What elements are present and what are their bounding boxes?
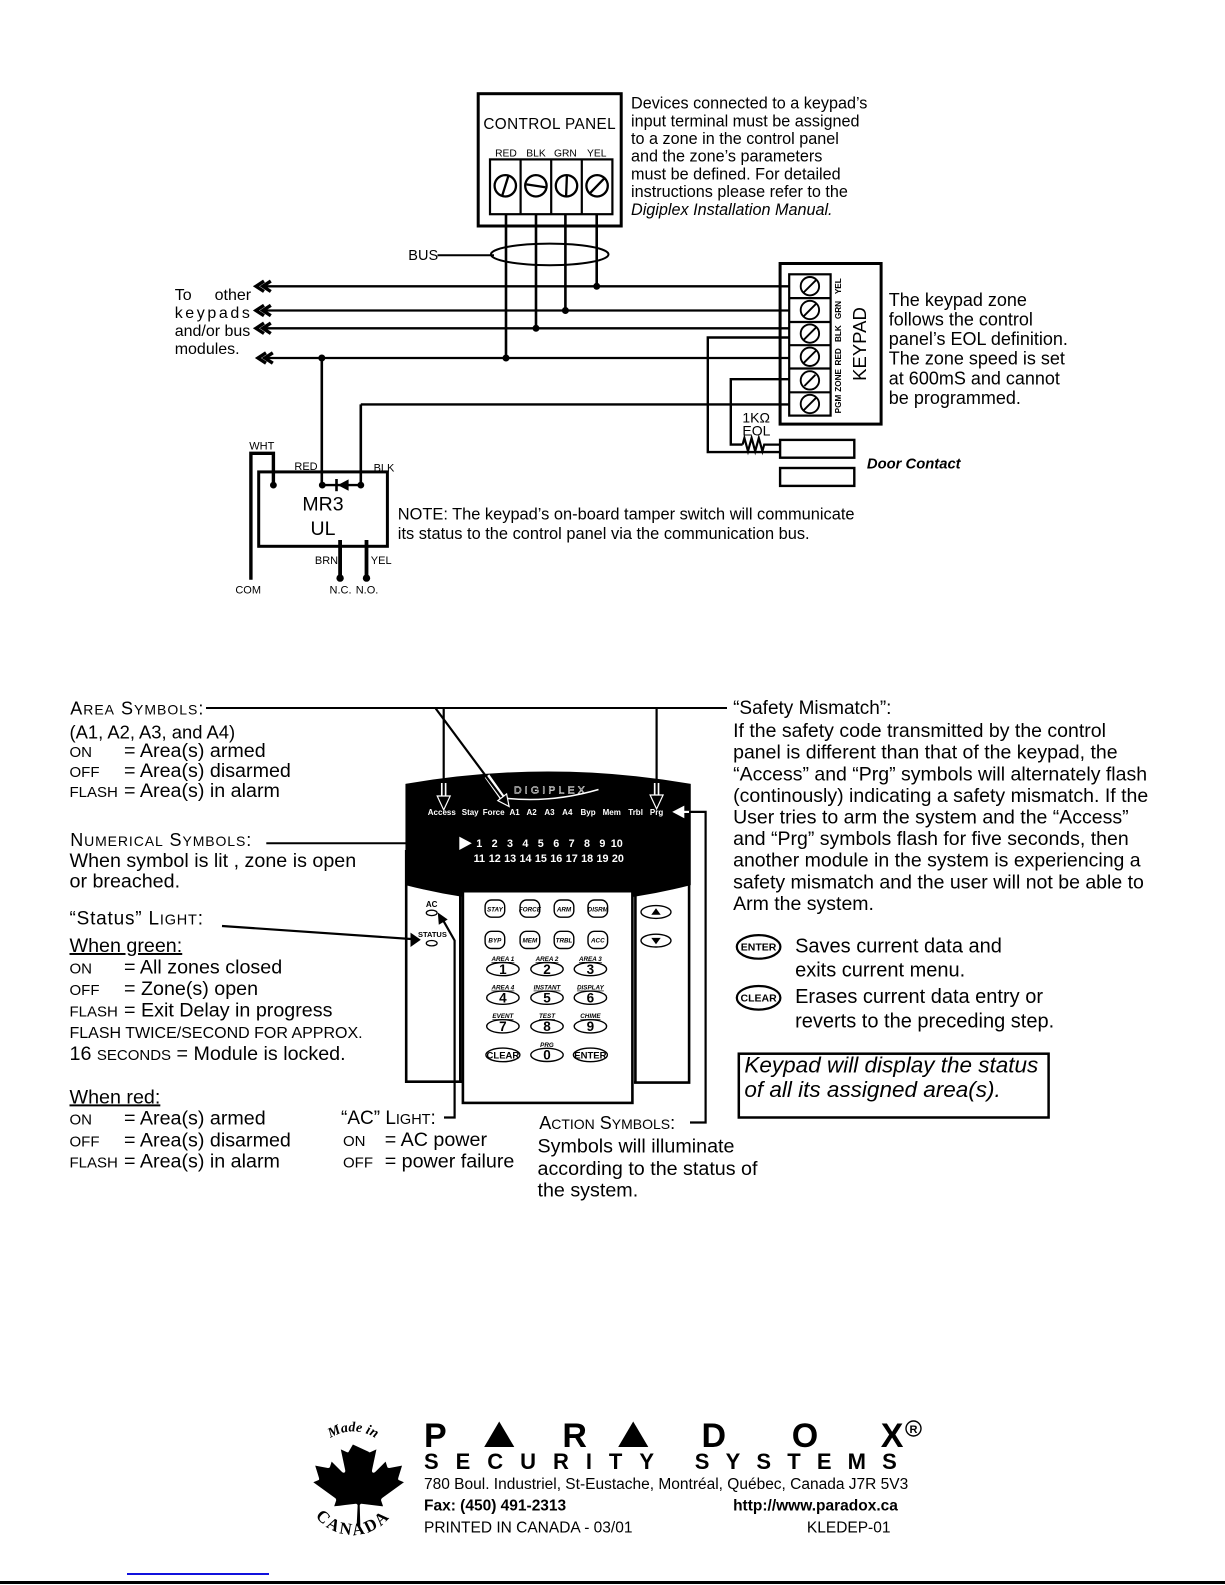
paragraph: keypad zone EOL note <box>889 290 1068 408</box>
terminal screw GRN <box>556 175 577 196</box>
display status symbol labels row <box>428 808 664 817</box>
keypad centre panel <box>463 891 633 1103</box>
svg-text:A1: A1 <box>509 808 520 817</box>
callout arrow down to Access <box>437 708 450 810</box>
button 6 DISPLAY <box>574 985 606 1006</box>
arrow chevron bus 4 <box>258 353 273 363</box>
button arrow down <box>641 934 671 947</box>
svg-text:= AC power: = AC power <box>385 1129 488 1151</box>
svg-text:must be defined. For detailed: must be defined. For detailed <box>631 165 841 183</box>
svg-text:1: 1 <box>476 838 482 850</box>
svg-text:other: other <box>215 287 252 304</box>
callout wire Prg to action symbols label <box>689 812 706 1123</box>
BUS cable loop ellipse <box>491 244 609 266</box>
button CLEAR <box>486 1048 520 1062</box>
svg-text:= Area(s) in alarm: = Area(s) in alarm <box>124 1150 280 1172</box>
svg-text:7: 7 <box>569 838 575 850</box>
junction node RED-bus4 <box>503 355 510 362</box>
svg-text:Erases current data entry or: Erases current data entry or <box>795 986 1043 1008</box>
module MR3 UL box <box>259 472 388 546</box>
svg-text:UL: UL <box>311 518 336 540</box>
svg-text:20: 20 <box>612 853 624 865</box>
svg-text:RED: RED <box>495 148 517 159</box>
svg-text:ZONE: ZONE <box>834 368 843 391</box>
svg-text:another module in the system i: another module in the system is experien… <box>733 850 1141 872</box>
svg-text:R: R <box>910 1424 918 1436</box>
svg-text:5: 5 <box>538 838 544 850</box>
svg-text:BLK: BLK <box>834 325 843 342</box>
button 2 AREA 2 <box>531 956 563 977</box>
action symbols text <box>538 1136 759 1202</box>
svg-text:and “Prg” symbols flash for f: and “Prg” symbols flash for five seconds… <box>733 828 1129 850</box>
node MR3 WHT pin <box>270 482 277 489</box>
svg-text:according to the status of: according to the status of <box>538 1158 759 1180</box>
arrowhead at AC led <box>438 913 448 925</box>
keypad screw RED <box>801 348 819 366</box>
button 4 AREA 4 <box>487 985 519 1006</box>
svg-text:Access: Access <box>428 808 457 817</box>
made in canada maple leaf logo <box>311 1420 404 1539</box>
label: to other keypads <box>175 287 253 358</box>
button 5 INSTANT <box>531 985 563 1006</box>
svg-text:= power failure: = power failure <box>385 1150 515 1172</box>
paragraph: devices connected note <box>631 95 867 219</box>
button BYP <box>485 931 505 948</box>
registered mark <box>906 1421 921 1436</box>
svg-text:YEL: YEL <box>371 555 392 567</box>
white arrow into numbers row <box>459 837 472 850</box>
svg-text:16: 16 <box>550 853 562 865</box>
svg-text:panel is different than that o: panel is different than that of the keyp… <box>733 742 1118 764</box>
DIGIPLEX logo text <box>499 785 599 800</box>
svg-text:Trbl: Trbl <box>628 808 643 817</box>
svg-text:Arm the system.: Arm the system. <box>733 893 874 915</box>
svg-text:SYSTEMS: SYSTEMS <box>695 1449 897 1474</box>
svg-text:= Area(s) disarmed: = Area(s) disarmed <box>124 1129 291 1151</box>
key CLEAR pill <box>737 986 781 1010</box>
svg-text:BLK: BLK <box>526 148 546 159</box>
svg-text:at 600mS and cannot: at 600mS and cannot <box>889 368 1060 388</box>
svg-text:10: 10 <box>611 838 623 850</box>
svg-text:Symbols will illuminate: Symbols will illuminate <box>538 1136 735 1158</box>
control panel terminal labels RED BLK GRN YEL <box>495 148 607 159</box>
bus wire 2 GRN <box>262 309 789 311</box>
wire RED from control panel <box>505 214 508 358</box>
svg-text:OFF: OFF <box>70 1133 100 1150</box>
display numeric symbols row 11-20 <box>474 853 624 865</box>
BUS leader wire <box>438 254 495 256</box>
svg-text:4: 4 <box>499 991 507 1006</box>
svg-text:= Zone(s) open: = Zone(s) open <box>124 978 258 1000</box>
keypad terminal strip <box>789 274 830 415</box>
svg-text:A2: A2 <box>526 808 537 817</box>
svg-text:http://www.paradox.ca: http://www.paradox.ca <box>733 1498 898 1515</box>
wire ZONE to EOL resistor <box>731 379 790 444</box>
svg-text:PGM: PGM <box>834 394 843 413</box>
svg-text:1: 1 <box>499 962 507 977</box>
svg-text:0: 0 <box>543 1048 551 1063</box>
safety mismatch paragraph <box>733 720 1148 915</box>
svg-text:When green:: When green: <box>70 935 183 957</box>
button 9 CHIME <box>574 1013 606 1034</box>
wire YEL to N.O. <box>365 540 369 578</box>
svg-text:2: 2 <box>492 838 498 850</box>
svg-text:RED: RED <box>834 348 843 365</box>
svg-text:BRN: BRN <box>315 555 338 567</box>
svg-text:“Safety Mismatch”:: “Safety Mismatch”: <box>733 698 891 719</box>
svg-text:12: 12 <box>489 853 501 865</box>
svg-text:DISRM: DISRM <box>588 906 609 913</box>
svg-text:AC: AC <box>426 900 438 909</box>
svg-text:OFF: OFF <box>70 764 100 781</box>
svg-text:Keypad will display the status: Keypad will display the status <box>744 1053 1038 1078</box>
svg-text:Mem: Mem <box>603 808 621 817</box>
svg-text:YEL: YEL <box>587 148 607 159</box>
svg-text:OFF: OFF <box>343 1154 373 1171</box>
junction node MR3 red tap on bus4 <box>318 355 325 362</box>
keypad terminal pin labels <box>834 278 843 413</box>
svg-text:ON: ON <box>343 1133 366 1150</box>
arrow chevron bus 3 <box>256 323 271 333</box>
svg-text:FLASH: FLASH <box>70 1004 118 1021</box>
svg-text:5: 5 <box>543 991 551 1006</box>
LED STATUS <box>426 941 437 946</box>
svg-text:ACC: ACC <box>590 938 605 945</box>
junction node BLK-bus3 <box>533 325 540 332</box>
svg-text:“Status” LIGHT:: “Status” LIGHT: <box>70 909 204 930</box>
ENTER description <box>795 935 1002 981</box>
svg-text:= Exit Delay in progress: = Exit Delay in progress <box>124 1000 333 1022</box>
svg-text:its status to the control pane: its status to the control panel via the … <box>398 525 810 543</box>
when red list <box>70 1086 291 1172</box>
svg-text:WHT: WHT <box>249 440 274 452</box>
door contact magnet body <box>780 468 854 486</box>
svg-text:PRINTED IN CANADA - 03/01: PRINTED IN CANADA - 03/01 <box>424 1520 632 1537</box>
svg-text:SECURITY: SECURITY <box>424 1449 654 1474</box>
wire BLK common to door contact <box>708 338 789 453</box>
left column area list <box>70 721 291 802</box>
svg-text:MEM: MEM <box>523 938 538 945</box>
white arrow left at Prg <box>672 806 690 819</box>
svg-text:The keypad zone: The keypad zone <box>889 290 1027 310</box>
callout arrow down to Prg <box>650 708 663 809</box>
control panel terminal strip <box>490 159 612 214</box>
svg-text:safety mismatch and the user w: safety mismatch and the user will not be… <box>733 871 1144 893</box>
svg-text:13: 13 <box>504 853 516 865</box>
svg-text:NOTE: The keypad’s on-board ta: NOTE: The keypad’s on-board tamper switc… <box>398 505 855 523</box>
svg-text:CANADA: CANADA <box>312 1506 394 1540</box>
button 8 TEST <box>531 1013 563 1034</box>
svg-text:the system.: the system. <box>538 1179 639 1201</box>
svg-text:4: 4 <box>522 838 528 850</box>
svg-text:Stay: Stay <box>462 808 479 817</box>
button arrow up <box>641 906 671 919</box>
svg-text:or breached.: or breached. <box>70 870 181 892</box>
svg-text:17: 17 <box>566 853 578 865</box>
svg-text:When red:: When red: <box>70 1086 161 1108</box>
label 1Kohm EOL <box>742 409 770 438</box>
wire BRN to N.C. <box>338 540 342 578</box>
button FORCE <box>519 900 542 917</box>
resistor 1K EOL zigzag <box>743 438 781 451</box>
svg-text:N.O.: N.O. <box>356 585 379 597</box>
svg-text:reverts to the preceding step.: reverts to the preceding step. <box>795 1010 1054 1032</box>
svg-text:780 Boul. Industriel, St-Eust: 780 Boul. Industriel, St-Eustache, Montr… <box>424 1476 908 1493</box>
svg-text:= Area(s) in alarm: = Area(s) in alarm <box>124 780 280 802</box>
callout line numerical symbols <box>266 842 407 844</box>
LED AC <box>426 910 437 915</box>
svg-text:FORCE: FORCE <box>519 906 542 913</box>
display numeric symbols row 1-10 <box>476 838 623 850</box>
svg-text:ON: ON <box>70 744 93 761</box>
svg-text:follows the control: follows the control <box>889 310 1033 330</box>
note: tamper switch text <box>398 505 855 543</box>
keypad right wing outline <box>634 850 689 1083</box>
svg-text:and the zone’s parameters: and the zone’s parameters <box>631 148 822 166</box>
svg-text:ON: ON <box>70 961 93 978</box>
svg-text:Fax: (450) 491-2313: Fax: (450) 491-2313 <box>424 1498 567 1515</box>
svg-text:keypads: keypads <box>175 305 253 322</box>
junction node YEL-bus1 <box>593 283 600 290</box>
svg-text:be programmed.: be programmed. <box>889 388 1021 408</box>
svg-text:8: 8 <box>543 1019 551 1034</box>
when green list <box>70 935 363 1065</box>
svg-text:modules.: modules. <box>175 341 240 358</box>
svg-text:ENTER: ENTER <box>574 1050 606 1061</box>
svg-text:If the safety code transmitted: If the safety code transmitted by the co… <box>733 720 1106 742</box>
wire WHT with COM lead <box>251 453 274 579</box>
svg-text:11: 11 <box>474 853 485 865</box>
node N.C. terminal <box>336 574 343 581</box>
button DISRM <box>588 900 609 917</box>
svg-text:STATUS: STATUS <box>418 930 447 939</box>
wire MR3 RED drop <box>320 358 323 485</box>
svg-text:Digiplex Installation Manual.: Digiplex Installation Manual. <box>631 201 833 219</box>
svg-text:Byp: Byp <box>581 808 596 817</box>
svg-text:9: 9 <box>599 838 605 850</box>
note box keypad status <box>739 1053 1049 1118</box>
svg-text:Door Contact: Door Contact <box>867 456 962 472</box>
bus wire 4 RED <box>263 357 789 359</box>
svg-text:7: 7 <box>499 1019 507 1034</box>
keypad module box <box>780 264 881 425</box>
svg-text:Made in: Made in <box>325 1420 382 1442</box>
wire GRN from control panel <box>564 214 567 310</box>
control panel box <box>478 94 621 226</box>
PARADOX wordmark <box>424 1417 904 1455</box>
arrow chevron bus 1 <box>256 281 271 291</box>
bus wire 3 BLK <box>262 327 789 329</box>
svg-text:19: 19 <box>596 853 608 865</box>
svg-text:GRN: GRN <box>834 301 843 319</box>
svg-text:TRBL: TRBL <box>556 938 573 945</box>
key ENTER pill <box>737 935 781 959</box>
keypad screw GRN <box>801 301 819 319</box>
svg-text:A3: A3 <box>544 808 555 817</box>
svg-text:of all its assigned area(s).: of all its assigned area(s). <box>744 1077 1000 1102</box>
wire BLK from control panel <box>535 214 538 328</box>
button STAY <box>485 900 505 917</box>
terminal screw YEL <box>586 175 607 196</box>
callout line area symbols to safety mismatch <box>206 707 727 709</box>
svg-text:CONTROL PANEL: CONTROL PANEL <box>483 116 616 133</box>
svg-text:6: 6 <box>553 838 559 850</box>
svg-text:The zone speed is set: The zone speed is set <box>889 349 1065 369</box>
svg-text:CLEAR: CLEAR <box>741 993 778 1005</box>
diode D1 inside MR3 <box>322 479 361 491</box>
arrow chevron bus 2 <box>256 305 271 315</box>
svg-text:16 SECONDS = Module is locked.: 16 SECONDS = Module is locked. <box>70 1043 346 1065</box>
terminal screw RED <box>495 175 516 196</box>
svg-text:9: 9 <box>587 1019 595 1034</box>
PARADOX triangle A 1 <box>484 1422 514 1448</box>
svg-text:FLASH: FLASH <box>70 784 118 801</box>
svg-text:“AC” LIGHT:: “AC” LIGHT: <box>341 1108 436 1129</box>
blue underline mark <box>127 1573 269 1575</box>
svg-text:KLEDEP-01: KLEDEP-01 <box>807 1520 891 1537</box>
callout wire AC led to AC light label <box>442 917 455 1117</box>
keypad screw YEL <box>801 277 819 295</box>
svg-text:FLASH TWICE/SECOND FOR APPROX.: FLASH TWICE/SECOND FOR APPROX. <box>70 1025 363 1042</box>
svg-text:KEYPAD: KEYPAD <box>849 307 870 381</box>
PARADOX triangle A 2 <box>618 1422 648 1448</box>
callout diagonal arrow to area symbols <box>436 709 509 807</box>
svg-text:AREA SYMBOLS:: AREA SYMBOLS: <box>70 698 204 718</box>
svg-text:CLEAR: CLEAR <box>487 1050 520 1061</box>
button 0 PRG <box>531 1042 563 1063</box>
svg-text:and/or bus: and/or bus <box>175 323 251 340</box>
svg-text:BUS: BUS <box>408 248 438 264</box>
button ENTER <box>573 1048 607 1062</box>
svg-text:YEL: YEL <box>834 278 843 294</box>
svg-text:ENTER: ENTER <box>741 942 777 954</box>
svg-text:= Area(s) armed: = Area(s) armed <box>124 1108 266 1130</box>
button MEM <box>520 931 540 948</box>
svg-text:RED: RED <box>294 461 317 473</box>
door contact switch body <box>780 440 854 458</box>
node MR3 BLK pin <box>357 482 364 489</box>
keypad screw ZONE <box>801 371 819 389</box>
svg-text:2: 2 <box>543 962 551 977</box>
wire YEL from control panel <box>595 214 598 286</box>
svg-text:panel’s EOL definition.: panel’s EOL definition. <box>889 329 1068 349</box>
svg-text:(continously) indicating a saf: (continously) indicating a safety mismat… <box>733 785 1148 807</box>
svg-text:6: 6 <box>587 991 595 1006</box>
button 7 EVENT <box>487 1013 519 1034</box>
svg-text:FLASH: FLASH <box>70 1154 118 1171</box>
callout line status light <box>222 926 411 939</box>
junction node GRN-bus2 <box>562 307 569 314</box>
svg-text:OFF: OFF <box>70 982 100 999</box>
svg-text:EOL: EOL <box>742 422 770 438</box>
button ARM <box>554 900 574 917</box>
svg-text:BYP: BYP <box>488 938 502 945</box>
svg-text:to a zone in the control panel: to a zone in the control panel <box>631 130 839 148</box>
svg-text:18: 18 <box>581 853 593 865</box>
arrowhead at STATUS led <box>411 933 421 947</box>
svg-text:N.C.: N.C. <box>330 585 352 597</box>
node MR3 RED pin <box>319 482 326 489</box>
svg-text:= All zones closed: = All zones closed <box>124 957 282 979</box>
svg-text:instructions please refer to t: instructions please refer to the <box>631 183 848 201</box>
svg-text:15: 15 <box>535 853 547 865</box>
svg-text:MR3: MR3 <box>302 493 343 515</box>
svg-text:3: 3 <box>587 962 595 977</box>
svg-text:To: To <box>175 287 192 304</box>
keypad screw BLK <box>801 324 819 342</box>
svg-text:8: 8 <box>584 838 590 850</box>
svg-text:BLK: BLK <box>374 463 395 475</box>
svg-text:ON: ON <box>70 1112 93 1129</box>
svg-text:ARM: ARM <box>556 906 572 913</box>
button 1 AREA 1 <box>487 956 519 977</box>
page bottom rule <box>0 1581 1225 1584</box>
wire MR3 BLK drop <box>359 404 362 485</box>
svg-text:A4: A4 <box>562 808 573 817</box>
svg-text:“Access” and “Prg” symbols wil: “Access” and “Prg” symbols will alternat… <box>733 763 1147 785</box>
numerical symbols text <box>70 850 357 892</box>
svg-text:3: 3 <box>507 838 513 850</box>
terminal screw BLK <box>525 175 546 196</box>
svg-text:ACTION SYMBOLS:: ACTION SYMBOLS: <box>539 1113 675 1133</box>
svg-text:Saves current data and: Saves current data and <box>795 935 1002 957</box>
CLEAR description <box>795 986 1054 1032</box>
button TRBL <box>554 931 574 948</box>
svg-text:NUMERICAL SYMBOLS:: NUMERICAL SYMBOLS: <box>70 830 252 850</box>
keypad left wing outline <box>406 850 462 1082</box>
node N.O. terminal <box>363 574 370 581</box>
AC light list <box>343 1129 514 1172</box>
svg-text:COM: COM <box>235 585 261 597</box>
keypad screw PGM <box>801 395 819 413</box>
svg-text:= Area(s) armed: = Area(s) armed <box>124 740 266 762</box>
button ACC <box>588 931 608 948</box>
svg-text:User tries to arm the system a: User tries to arm the system and the “Ac… <box>733 807 1129 829</box>
keypad black display area <box>406 772 690 903</box>
svg-text:STAY: STAY <box>487 906 504 913</box>
svg-text:input terminal must be assigne: input terminal must be assigned <box>631 112 860 130</box>
svg-text:GRN: GRN <box>554 148 577 159</box>
svg-text:Force: Force <box>483 808 505 817</box>
svg-text:14: 14 <box>519 853 531 865</box>
svg-text:Devices connected to a keypad’: Devices connected to a keypad’s <box>631 95 867 113</box>
svg-text:When symbol is lit , zone is o: When symbol is lit , zone is open <box>70 850 357 872</box>
svg-text:exits current menu.: exits current menu. <box>795 960 965 982</box>
SECURITY SYSTEMS line <box>424 1449 897 1474</box>
svg-text:= Area(s) disarmed: = Area(s) disarmed <box>124 760 291 782</box>
button 3 AREA 3 <box>574 956 606 977</box>
wire PGM to MR3 BLK <box>361 403 790 405</box>
bus wire 1 YEL <box>262 285 789 287</box>
